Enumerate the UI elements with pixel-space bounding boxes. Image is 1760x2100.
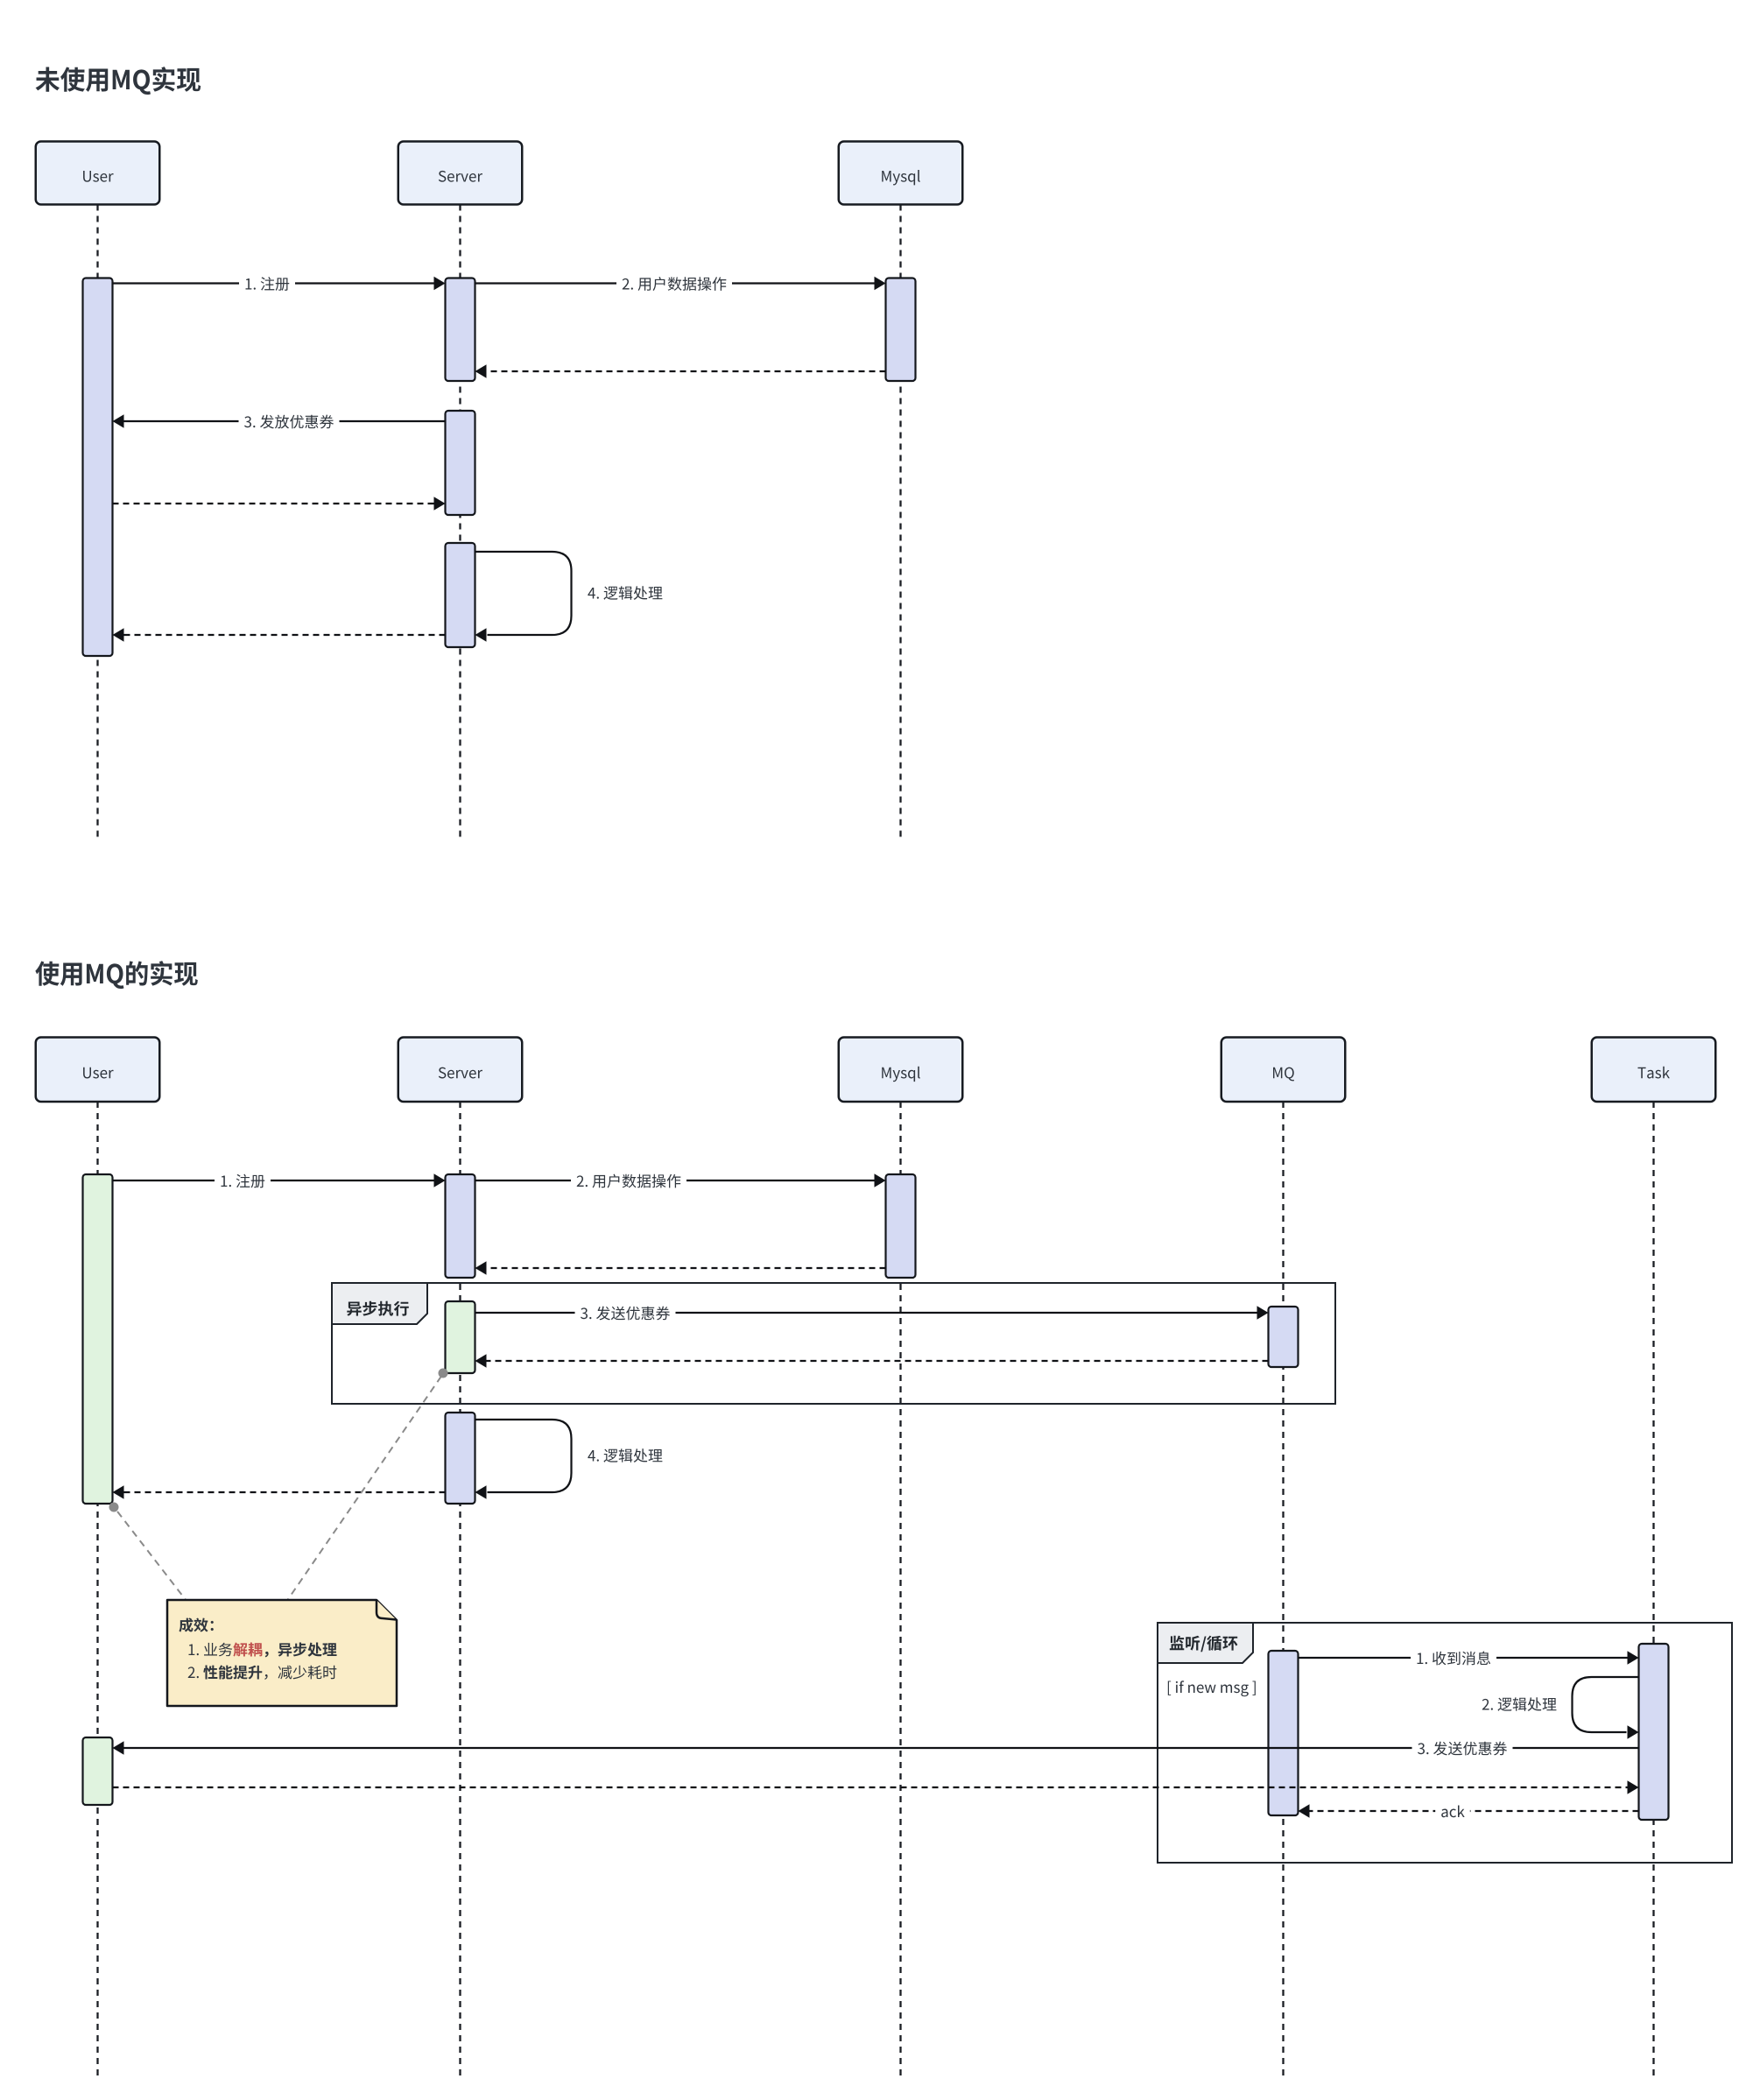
lifeline User d2 [96,1102,98,2077]
activation MQ d2-b [1269,1651,1299,1815]
frame 异步执行 [332,1283,1335,1404]
message 1. 注册 d2 [113,1171,446,1190]
note 成效 [167,1600,397,1706]
note line 2 [188,1667,199,1678]
actor User d2 [36,1038,160,1103]
activation Server d2-c [446,1413,475,1504]
lifeline User d1 [96,205,98,838]
note link line to user bar [115,1508,189,1604]
guard [ if new msg ] [1168,1681,1256,1696]
self message 4. 逻辑处理 d1 [475,552,663,642]
message 1. 收到消息 [1299,1648,1639,1667]
actor Task d2 [1592,1038,1716,1103]
message return Mysql->Server d1 [475,364,886,378]
message 3. 发送优惠券 d2 [475,1303,1269,1322]
actor Server d2 [398,1038,523,1103]
message ack [1299,1801,1639,1821]
activation User d1 [83,278,113,657]
lifeline Server d1 [459,205,461,838]
message return User->Task [113,1780,1639,1794]
title 未使用MQ实现 [36,67,201,95]
title 使用MQ的实现 [35,961,197,989]
lifeline Server d2 [459,1102,461,2077]
message return Server->User d2 [113,1485,446,1499]
message return Server->User d1 [113,628,446,642]
message return User->Server d1 [113,497,446,511]
activation Server d2-a [446,1174,475,1278]
activation User d2-b (green) [83,1737,113,1805]
note line 1 [188,1643,232,1657]
actor User d1 [36,142,160,205]
link dot on server activation [439,1369,448,1378]
activation Server d1-c [446,543,475,647]
message return MQ->Server d2 [475,1354,1269,1368]
activation Task d2 [1639,1644,1669,1820]
lifeline MQ d2 [1282,1102,1284,2077]
message 3. 发放优惠券 d1 [113,412,446,431]
actor Mysql d2 [839,1038,963,1103]
activation Server d1-b [446,411,475,515]
lifeline Mysql d2 [899,1102,901,2077]
activation User d2 (green) [83,1174,113,1504]
message 2. 用户数据操作 d1 [475,274,886,293]
actor Server d1 [398,142,523,205]
activation Mysql d2 [886,1174,916,1278]
self message 4. 逻辑处理 d2 [475,1420,663,1499]
frame 监听/循环 [1158,1623,1732,1863]
activation Server d1-a [446,278,475,382]
note link line to server bar [285,1375,442,1604]
activation MQ d2-a [1269,1307,1299,1367]
lifeline Task d2 [1652,1102,1654,2077]
note title 成效 [179,1617,213,1631]
message 2. 用户数据操作 d2 [475,1171,886,1190]
message 3. 发送优惠券 frame2 [113,1738,1639,1758]
actor MQ d2 [1221,1038,1346,1103]
activation Mysql d1 [886,278,916,382]
message 1. 注册 d1 [113,274,446,293]
link dot on user activation [109,1503,119,1512]
message return Mysql->Server d2 [475,1261,886,1275]
activation Server d2-b (green) [446,1301,475,1373]
actor Mysql d1 [839,142,963,205]
lifeline Mysql d1 [899,205,901,838]
self message 2. 逻辑处理 [1482,1677,1639,1739]
